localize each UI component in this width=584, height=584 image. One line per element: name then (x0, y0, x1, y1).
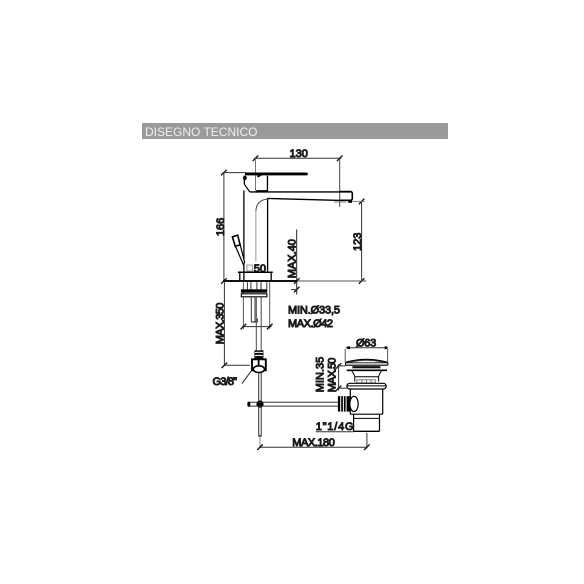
extension line top of 123 (352, 200, 364, 202)
drain flange (347, 383, 386, 389)
svg-text:MAX.50: MAX.50 (327, 358, 339, 393)
linkage rod left end cap (247, 402, 250, 407)
countertop line (223, 280, 297, 282)
svg-text:MAX.180: MAX.180 (292, 437, 334, 449)
body column left edge (243, 191, 245, 281)
dimension MAX.350 line (222, 281, 228, 368)
dimension under-base hole diameter lines (241, 282, 273, 329)
svg-text:MIN.Ø33,5: MIN.Ø33,5 (288, 304, 340, 316)
dimension Ø63 line (346, 346, 388, 349)
extension line top of 166 (223, 172, 246, 174)
mounting washer (filled) (241, 289, 267, 292)
extension line left of 130 (255, 158, 257, 191)
spout end block (340, 192, 353, 201)
faucet head chamfer (244, 184, 249, 192)
handle block right edge (266, 176, 268, 192)
dimension 123 line (359, 199, 365, 284)
drain dark gap under cap (352, 366, 380, 368)
spout bottom edge (268, 198, 341, 200)
extension line bottom of MAX.350 (224, 364, 250, 366)
extension stub flange level (337, 387, 347, 389)
body column right edge (267, 198, 269, 272)
svg-text:G3/8": G3/8" (213, 376, 238, 388)
svg-text:MAX.350: MAX.350 (215, 303, 227, 345)
aerator nub (348, 200, 352, 202)
rod ball joint (256, 401, 263, 408)
extension line bottom of 123 (countertop level) (298, 280, 367, 282)
square symbol of □50 (247, 265, 253, 271)
spout top edge (250, 191, 351, 193)
side lever arm (236, 245, 245, 265)
svg-text:MAX.Ø42: MAX.Ø42 (288, 318, 333, 330)
svg-text:Ø63: Ø63 (356, 338, 376, 350)
braided hose block (254, 350, 263, 359)
extension line washer level for MAX.40 (291, 289, 298, 291)
svg-text:166: 166 (215, 218, 227, 236)
horizontal linkage rod (249, 402, 339, 406)
extension stub rim level (337, 365, 345, 367)
handle block bottom edge (256, 190, 268, 192)
svg-text:123: 123 (352, 233, 364, 251)
inner grey line (255, 211, 257, 262)
drain side inlet ribbed (338, 396, 358, 411)
base plate (238, 272, 273, 280)
faucet head left edge (243, 176, 245, 185)
drain tailpipe (354, 414, 380, 431)
handle block top diagonal (257, 175, 262, 177)
drain top flange lens (347, 369, 387, 371)
drain body (350, 389, 382, 414)
extension line right of 130 (339, 158, 341, 207)
pull rod vertical (258, 373, 261, 437)
leader line under 1"1/4G (316, 431, 354, 433)
dimension 130 line (253, 156, 343, 162)
aerator grey line (334, 201, 347, 203)
mounting nut (241, 294, 267, 297)
extension lines of Ø63 (345, 349, 387, 362)
svg-text:130: 130 (290, 148, 308, 160)
supply hose lines (256, 297, 261, 351)
dimension MIN.35 MAX.50 line (336, 363, 342, 391)
dimension MAX.180 line (257, 444, 370, 450)
drain cap dome (346, 359, 388, 365)
faucet handle bar (245, 173, 308, 176)
under-counter shank verticals (247, 282, 266, 289)
extension line right of MAX.180 (366, 433, 368, 449)
svg-text:MIN.35: MIN.35 (314, 357, 326, 392)
header bar DISEGNO TECNICO (136, 123, 448, 457)
svg-text:MAX.40: MAX.40 (287, 239, 299, 278)
hose connector hex nut (252, 359, 266, 372)
drain slot band (357, 380, 376, 383)
drain neck (352, 371, 382, 382)
dimension 166 line (221, 170, 227, 284)
faucet handle pivot dot (243, 176, 247, 181)
inner fillet curve (256, 199, 269, 211)
pull rod thin tail (259, 436, 261, 446)
G3/8 leader line (242, 370, 252, 384)
dimension MAX.40 line (294, 230, 300, 295)
side lever knob (232, 235, 240, 246)
threaded stud (251, 297, 257, 322)
